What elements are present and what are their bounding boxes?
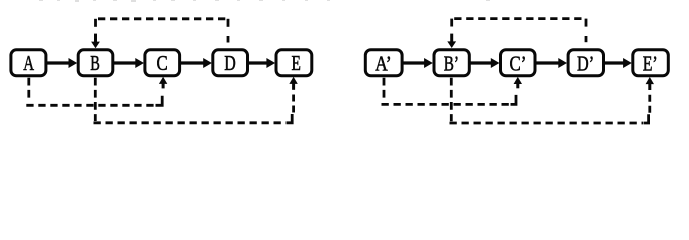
arrow head into top of B' xyxy=(447,34,456,48)
dashed connector A' down xyxy=(383,78,386,101)
box E xyxy=(276,50,312,76)
dashed feedback loop D to B : top horizontal xyxy=(98,17,228,20)
svg-text:B’: B’ xyxy=(444,53,459,75)
dashed feedback loop D' to B' : top horizontal xyxy=(454,17,586,20)
solid arrow C to D xyxy=(181,58,212,68)
solid arrow B to C xyxy=(114,58,144,68)
solid arrow C' to D' xyxy=(536,58,567,68)
corner hook up at E end xyxy=(287,114,292,123)
svg-text:D: D xyxy=(224,53,236,75)
corner hook up at E' end xyxy=(644,114,649,123)
arrow head into bottom of E xyxy=(289,77,297,90)
arrow head into bottom of C' xyxy=(514,77,522,88)
solid arrow A' to B' xyxy=(403,58,433,68)
svg-text:C’: C’ xyxy=(510,53,527,75)
box D' xyxy=(568,50,603,76)
box A' xyxy=(365,50,402,76)
box A xyxy=(11,50,46,76)
svg-text:D’: D’ xyxy=(577,53,594,75)
svg-text:A: A xyxy=(23,53,34,75)
faint cut-off text remnants along top edge xyxy=(39,0,490,2)
dashed connector A to C : bottom horizontal xyxy=(26,104,155,107)
dashed connector B' down xyxy=(450,78,453,121)
solid arrow D to E xyxy=(248,58,275,68)
box D xyxy=(213,50,248,76)
svg-text:A’: A’ xyxy=(375,53,391,75)
dashed vertical up to E' xyxy=(648,95,651,113)
box C xyxy=(145,50,180,76)
box B xyxy=(78,50,113,76)
dashed vertical up to E xyxy=(292,95,295,113)
dashed feedback loop D' to B' : left corner stub xyxy=(450,19,453,27)
solid arrow B' to C' xyxy=(470,58,499,68)
svg-text:C: C xyxy=(157,53,168,75)
dashed connector A' to C' : bottom horizontal xyxy=(382,103,511,106)
arrow head into bottom of E' xyxy=(646,77,654,90)
dashed connector B down xyxy=(94,78,97,121)
solid arrow A to B xyxy=(47,58,77,68)
box B' xyxy=(434,50,469,76)
solid arrow D' to E' xyxy=(605,58,632,68)
dashed connector B to E : lower bottom horizontal xyxy=(94,121,287,124)
box E' xyxy=(633,50,669,76)
arrow head into top of B xyxy=(91,34,100,49)
dashed connector B' to E' : lower bottom horizontal xyxy=(450,122,644,125)
dashed feedback loop D to B : left corner stub xyxy=(94,19,97,27)
dashed connector A down xyxy=(27,78,30,101)
svg-text:E’: E’ xyxy=(643,53,658,75)
corner hook up at C end xyxy=(156,96,163,106)
dashed feedback loop D' to B' : vertical above D', corner stub and dash xyxy=(585,19,588,27)
svg-text:B: B xyxy=(90,53,100,75)
corner hook up at C' end xyxy=(511,95,517,105)
dashed feedback loop D to B : vertical above D, corner stub and dash xyxy=(227,19,230,27)
arrow head into bottom of C xyxy=(159,77,167,89)
svg-text:E: E xyxy=(292,53,301,75)
box C' xyxy=(501,50,536,76)
